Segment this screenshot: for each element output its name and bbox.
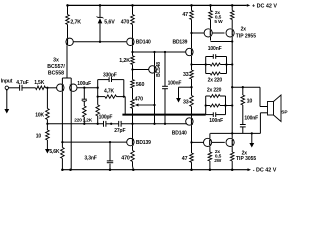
- wire T2 to feedback box: [77, 87, 98, 89]
- speaker SP: [268, 102, 274, 116]
- wire output to speaker: [232, 86, 260, 88]
- node feedback divider tap: [46, 87, 48, 89]
- resistor 10 output: [241, 95, 245, 105]
- wire 47 to rail: [191, 162, 193, 169]
- svg-text:10: 10: [247, 98, 253, 104]
- bottom edge with cap lower zobel: [206, 114, 214, 116]
- svg-text:100nF: 100nF: [168, 80, 182, 86]
- svg-text:470: 470: [135, 96, 144, 102]
- wire speaker line to 10: [242, 87, 244, 95]
- svg-text:2,7K: 2,7K: [70, 20, 81, 26]
- node comp mid junction: [110, 123, 112, 125]
- node TIP base junction lower: [190, 141, 192, 143]
- resistor 10: [46, 130, 50, 140]
- wire zobel lower to rail: [226, 105, 233, 107]
- transistor T10 BD139 lower: [127, 138, 134, 145]
- wire to speaker top: [259, 87, 261, 106]
- resistor 220 feedback: [83, 106, 87, 117]
- wire R1 to T1 base: [46, 87, 58, 89]
- svg-text:100nF: 100nF: [208, 46, 222, 52]
- wire node to 100nF: [164, 52, 166, 86]
- node 10 ohm tap: [242, 86, 244, 88]
- wire TIP base chain lower: [192, 141, 225, 143]
- wiper arrow of preset: [139, 104, 155, 106]
- svg-text:4,7uF: 4,7uF: [16, 80, 28, 86]
- resistor 0,5 5W right: [231, 5, 233, 10]
- capacitor 3,3nF: [109, 142, 111, 161]
- ground stub arrow: [179, 86, 192, 88]
- wire +42V top rail: [68, 4, 247, 6]
- wire zobel to rail upper: [227, 64, 233, 66]
- wire comp line right: [121, 123, 187, 125]
- resistor 2,7K: [66, 15, 70, 25]
- capacitor 330pF plates: [108, 77, 110, 82]
- wire 470 to T4: [132, 25, 134, 39]
- node top rail junctions: [66, 4, 69, 7]
- transistor T8 TIP2955: [231, 20, 233, 29]
- node bottom line junctions: [231, 132, 233, 134]
- wire to T5 base node: [132, 65, 134, 80]
- wire rail to 2,7K: [67, 5, 69, 14]
- resistor 10K: [46, 109, 50, 120]
- wire T6 emitter down: [191, 56, 193, 70]
- node elco junction: [83, 87, 85, 89]
- network box lower: [205, 96, 207, 115]
- svg-text:2W: 2W: [214, 158, 222, 164]
- svg-text:27pF: 27pF: [114, 128, 125, 134]
- node output line junction: [190, 113, 192, 115]
- wire node to T5 base: [133, 69, 150, 71]
- capacitor 4,7uF: [19, 85, 21, 91]
- svg-text:2x: 2x: [241, 27, 247, 33]
- svg-text:470: 470: [121, 20, 130, 26]
- svg-text:47: 47: [182, 12, 188, 18]
- wire 100pF to 27pF: [106, 123, 119, 125]
- wire BD139 base line lower: [62, 141, 126, 143]
- resistor 33 lower: [190, 96, 194, 107]
- svg-text:5,6V: 5,6V: [104, 19, 115, 25]
- wire output node thick: [122, 114, 205, 116]
- svg-text:3x: 3x: [53, 57, 59, 63]
- input terminal: [5, 86, 8, 89]
- +DC 42V supply arrow: [247, 4, 251, 7]
- wire 33 to output line: [191, 107, 193, 118]
- wire 0,5 to rail right: [231, 161, 233, 170]
- resistor 220 lower mid: [206, 105, 210, 107]
- capacitor 27pF: [118, 121, 120, 127]
- node box left edge junction: [97, 87, 99, 89]
- wire -42V bottom rail: [62, 169, 248, 171]
- svg-text:2x 220: 2x 220: [208, 77, 223, 83]
- node comp line left junction: [97, 123, 99, 125]
- svg-text:100nF: 100nF: [209, 118, 223, 124]
- transistor T5 BC548 bias: [149, 66, 156, 73]
- resistor 220 lower top: [206, 95, 210, 97]
- node base line junctions: [61, 141, 63, 143]
- svg-text:10K: 10K: [35, 112, 44, 118]
- resistor 1,2K vas: [97, 97, 99, 105]
- resistor 33 upper: [190, 70, 194, 79]
- svg-text:100pF: 100pF: [99, 115, 113, 121]
- svg-text:Input: Input: [1, 79, 13, 85]
- svg-text:1,2K: 1,2K: [83, 118, 93, 124]
- transistor T1 left of diff pair: [61, 78, 63, 84]
- wire 33 to mid node: [191, 79, 193, 96]
- preset 470 with wiper: [131, 99, 135, 108]
- wire bottom collector line: [210, 132, 260, 134]
- transistor T6 BD139 driver: [186, 48, 193, 55]
- wire diff pair emitter bar: [62, 77, 71, 79]
- network 330pF parallel 4,7K: [97, 80, 99, 97]
- svg-text:1,5K: 1,5K: [34, 80, 45, 86]
- resistor 220 upper mid: [206, 64, 211, 66]
- node rail junctions: [231, 63, 233, 65]
- wire comp line left section: [47, 123, 103, 125]
- transistor T12 TIP3055: [231, 133, 233, 138]
- svg-text:TIP 3055: TIP 3055: [236, 156, 256, 162]
- transistor T2 right of diff pair: [70, 78, 72, 84]
- svg-text:BD140: BD140: [172, 130, 187, 136]
- svg-text:33: 33: [183, 72, 189, 78]
- resistor 4,7K: [98, 96, 105, 98]
- svg-text:100uF: 100uF: [77, 81, 91, 87]
- svg-text:BD139: BD139: [173, 39, 188, 45]
- svg-text:470: 470: [121, 155, 130, 161]
- node zobel lower ends: [205, 104, 207, 106]
- resistor 47 upper: [190, 11, 194, 20]
- node TIP base junction upper: [190, 32, 192, 34]
- svg-text:2x 220: 2x 220: [207, 88, 222, 94]
- wire 220 to comp line: [83, 117, 85, 124]
- wire C1 to R1: [22, 87, 36, 89]
- capacitor 100nF mid: [162, 85, 168, 87]
- svg-text:100nF: 100nF: [244, 116, 258, 122]
- wire 0,5 to rail left: [209, 161, 211, 170]
- wire T5 collector up: [154, 52, 156, 66]
- wire output rail vertical: [231, 42, 233, 134]
- ground below resistor 10: [46, 140, 48, 149]
- svg-text:BC557/: BC557/: [47, 64, 65, 70]
- wire 47 to base node: [191, 20, 193, 49]
- node T4 emitter junction: [131, 51, 133, 53]
- svg-text:10: 10: [36, 134, 42, 140]
- svg-text:1,2K: 1,2K: [119, 58, 130, 64]
- svg-text:4,7K: 4,7K: [104, 89, 115, 95]
- wire 1,2K to comp line: [97, 116, 99, 124]
- wire 470 to rail: [132, 162, 134, 167]
- resistor 0,5 5W left: [210, 5, 212, 10]
- resistor 5,6K: [61, 142, 63, 147]
- wire down to 10K: [46, 88, 48, 109]
- svg-text:47: 47: [182, 156, 188, 162]
- node bottom rail junctions: [61, 168, 64, 171]
- wire 10 to 100nF: [242, 105, 244, 124]
- -DC 42V supply arrow: [248, 168, 252, 171]
- svg-text:220: 220: [74, 118, 82, 124]
- resistor 47 lower: [190, 153, 194, 162]
- svg-text:3,3nF: 3,3nF: [84, 156, 96, 162]
- svg-text:BD140: BD140: [136, 39, 151, 45]
- node cap column junction: [164, 51, 166, 53]
- wire speaker bottom: [260, 112, 267, 114]
- capacitor 100uF electrolytic: [83, 88, 85, 100]
- wire T5 emitter down: [154, 73, 156, 124]
- wire TIP collectors join upper: [211, 41, 233, 43]
- resistor 0,5 2W right: [230, 152, 234, 161]
- svg-text:5 W: 5 W: [214, 19, 223, 25]
- svg-text:5,6K: 5,6K: [49, 149, 60, 155]
- capacitor 100nF output: [240, 124, 246, 126]
- wire 3,3nF to rail: [109, 164, 111, 170]
- node T5 base junction: [131, 68, 133, 70]
- wire elco to 220: [83, 101, 85, 106]
- wire T10 collector up: [132, 124, 134, 139]
- svg-text:SP: SP: [281, 109, 288, 115]
- node mid with ground stub: [190, 86, 192, 88]
- svg-text:+ DC 42 V: + DC 42 V: [252, 3, 277, 9]
- resistor 1,5K: [36, 86, 46, 90]
- wire node to BD139 base: [133, 51, 186, 53]
- wire 10K to 10: [46, 120, 48, 131]
- wire preset to output line: [132, 108, 134, 124]
- resistor 0,5 2W left: [208, 152, 212, 161]
- svg-text:TIP 2955: TIP 2955: [236, 33, 256, 39]
- wire zener to node: [99, 23, 101, 41]
- wire TIP base chain upper: [192, 32, 225, 34]
- transistor T4 BD140: [127, 38, 134, 45]
- resistor 470 upper: [131, 15, 135, 25]
- node 4,7K ends: [97, 95, 99, 97]
- wire 560 to 470 preset: [132, 88, 134, 99]
- node zobel upper ends: [205, 63, 207, 65]
- svg-text:BC548: BC548: [156, 62, 162, 77]
- svg-text:BC558: BC558: [48, 71, 64, 77]
- zener diode 5,6V: [98, 16, 103, 18]
- wire rail to zener: [99, 5, 101, 17]
- resistor 1,2K bias: [132, 52, 134, 56]
- node thick line junction: [131, 113, 133, 115]
- svg-text:560: 560: [136, 82, 145, 88]
- wire 5,6K to rail: [61, 158, 63, 169]
- transistor T3 current source: [66, 38, 73, 45]
- capacitor 100nF upper plates: [212, 54, 214, 59]
- resistor 560: [131, 80, 135, 89]
- node zobel tap upper: [190, 63, 192, 65]
- transistor T9 BD140 lower driver: [186, 118, 193, 125]
- capacitor 100pF: [103, 121, 105, 127]
- wire node to zobel upper: [192, 64, 206, 66]
- svg-text:- DC 42 V: - DC 42 V: [253, 167, 277, 173]
- wire rail to 470: [132, 5, 134, 14]
- wire input to C1: [9, 87, 20, 89]
- wire cap to bottom node: [242, 127, 244, 133]
- svg-text:33: 33: [183, 100, 189, 106]
- capacitor 100nF lower plates: [212, 112, 214, 117]
- wire T9 collector down: [191, 125, 193, 153]
- node zener junction: [99, 41, 101, 43]
- node comp line left junctions: [46, 123, 48, 125]
- resistor 220 upper bottom: [206, 73, 211, 75]
- wire rail to 47: [191, 5, 193, 10]
- ground arrow output: [251, 133, 253, 143]
- network box upper 2x220: [205, 57, 207, 74]
- wire T10 emitter down: [132, 146, 134, 151]
- svg-text:BD139: BD139: [136, 140, 151, 146]
- transistor T7 TIP2955: [210, 20, 212, 29]
- wire T3 base to zener node: [73, 41, 126, 43]
- wire feedback to output line: [124, 96, 125, 98]
- wire 2,7K to T3: [67, 25, 69, 39]
- transistor T11 TIP3055: [209, 133, 211, 138]
- wire 100nF down: [164, 89, 166, 124]
- svg-text:330pF: 330pF: [103, 72, 117, 78]
- resistor 470 lower: [131, 151, 135, 162]
- node BC548 collector junction: [153, 51, 155, 53]
- node comp junctions: [131, 123, 133, 125]
- ground below input: [6, 90, 8, 92]
- wire T4 down to node: [132, 45, 134, 52]
